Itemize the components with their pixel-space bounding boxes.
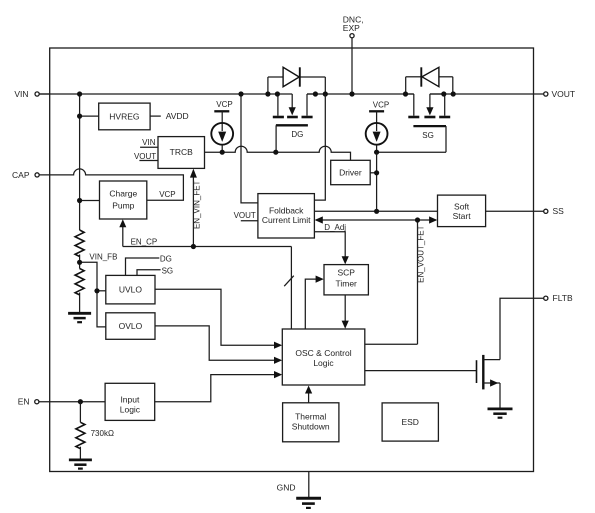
node junction SG FET left / diode [403,91,408,96]
pin DNC,EXP [343,15,364,38]
node junction DG gate / TRCB wire [273,150,278,155]
pin SS [544,206,564,216]
resistor R1 VIN_FB upper [75,230,84,256]
svg-text:GND: GND [277,483,296,493]
wire Input Logic output to OSC [155,371,283,402]
node junction HVREG tap [77,114,82,119]
svg-text:VCP: VCP [373,101,389,110]
wire VOUT sense down to Foldback (x=325.3) [314,94,325,200]
svg-text:Logic: Logic [313,358,334,368]
ground symbol at GND pin [296,498,321,508]
svg-text:Logic: Logic [120,405,141,415]
node junction Driver output [374,170,379,175]
svg-text:Input: Input [120,395,140,405]
block Input Logic [105,383,155,420]
wire Foldback output to Soft Start and SS pin [314,210,543,212]
pin VIN [14,89,50,99]
block OVLO [106,313,155,340]
wire UVLO output to OSC [155,289,282,349]
svg-text:EXP: EXP [343,23,360,33]
svg-text:VCP: VCP [216,100,232,109]
svg-text:SG: SG [422,131,434,140]
pin EN [18,397,39,407]
block HVREG U1 [99,103,150,130]
node junction charge pump tap [77,198,82,203]
value label 730k ohm [91,429,114,438]
net label D_Adj [324,223,346,232]
node junction VCP2 branch / foldback wire [374,209,379,214]
net label VCP (charge pump output) [159,190,175,199]
node junction EN_VOUT_FET [415,217,420,222]
block Foldback Current Limit [258,194,315,238]
svg-text:Charge: Charge [109,188,137,198]
transistor DG (back-to-back FET) [273,94,316,117]
svg-text:SG: SG [162,266,174,275]
svg-text:VIN: VIN [142,138,156,147]
wire Driver output [370,172,376,174]
wire VCP2 to SG gate [377,151,446,153]
pin CAP [12,170,39,180]
svg-text:CAP: CAP [12,170,30,180]
wire VIN vertical branch x=79.6 [79,94,81,312]
net label VOUT (TRCB input) [134,152,158,161]
svg-text:DG: DG [160,254,172,263]
wire FLTB drain to pin [500,298,544,359]
wire VCP2 node down to foldback output wire [376,152,378,211]
node junction VCP1 / gate wire [220,150,225,155]
block Soft Start [438,195,486,227]
wire TRCB output to DG gate and Driver (hops over two verticals) [205,146,351,160]
svg-text:Thermal: Thermal [295,411,326,421]
wire OSC output to EN_VOUT_FET [365,343,418,345]
block ESD [382,403,438,441]
wire SCP Timer output to OSC [342,295,349,329]
svg-text:HVREG: HVREG [109,111,139,121]
block OSC and Control Logic [282,329,365,385]
node junction DG diode right [323,91,328,96]
node junction DG FET right [313,91,318,96]
svg-text:Soft: Soft [454,201,470,211]
svg-text:OVLO: OVLO [119,321,143,331]
svg-text:Shutdown: Shutdown [292,421,330,431]
net label VOUT (Foldback input) [234,211,258,221]
wire EN_VIN_FET arrow into TRCB [190,169,197,247]
wire EN_VOUT_FET vertical from OSC [417,220,419,344]
svg-text:EN_VIN_FET: EN_VIN_FET [193,180,202,229]
transistor SG (back-to-back FET) [406,94,451,117]
wire EN_CP bus down to OSC with bus slash [284,247,294,330]
svg-text:EN: EN [18,397,30,407]
net label VIN (TRCB input) [140,138,158,147]
svg-text:VOUT: VOUT [134,152,156,161]
svg-text:730kΩ: 730kΩ [91,429,114,438]
current source VCP1 [211,100,233,152]
ground below R2 [68,313,91,322]
net label SG (UVLO stub) [137,266,173,275]
svg-text:ESD: ESD [401,417,418,427]
wire OSC output to FLTB FET gate [365,370,477,372]
node junction VIN rail / branch [77,91,82,96]
wire Thermal Shutdown to OSC arrow [305,386,312,403]
diode DG body diode [268,67,325,94]
resistor R3 730k [76,402,85,459]
svg-text:Driver: Driver [339,167,362,177]
wire SCP Timer left input from OSC [305,276,324,330]
svg-text:Start: Start [453,211,472,221]
net label EN_VIN_FET (rotated) [193,180,202,229]
svg-text:TRCB: TRCB [170,147,193,157]
net label AVDD [166,111,189,121]
svg-text:EN_CP: EN_CP [131,237,158,246]
svg-text:VIN: VIN [14,89,28,99]
wire D_Adj from Foldback to SCP Timer [314,232,348,265]
current source VCP2 [366,101,390,153]
block TRCB [158,137,205,169]
svg-text:VOUT: VOUT [552,89,576,99]
svg-text:UVLO: UVLO [119,285,143,295]
svg-text:SCP: SCP [337,267,355,277]
svg-text:FLTB: FLTB [553,293,573,303]
IC boundary [50,48,534,472]
svg-text:VCP: VCP [159,190,175,199]
block Charge Pump [100,181,147,219]
pin FLTB [544,293,573,303]
svg-text:DG: DG [291,130,303,139]
resistor R2 VIN_FB lower [75,269,84,295]
block Thermal Shutdown [283,403,339,442]
wire VIN sense down to Foldback (x=241) [241,94,258,203]
net label DG (UVLO stub) [126,254,172,275]
pin VOUT [534,89,576,99]
node junction UVLO input [94,288,99,293]
net label EN_VOUT_FET (rotated) [416,225,425,282]
node junction SG diode right [451,91,456,96]
wire EN_CP with arrow into Charge Pump [119,219,291,246]
node junction EN divider tap [78,399,83,404]
svg-text:Timer: Timer [335,278,357,288]
svg-text:Current Limit: Current Limit [262,215,311,225]
wire CAP to VCP node (hop over VIN branch) [39,169,183,200]
block SCP Timer [324,265,368,295]
wire Charge Pump input [80,200,100,202]
wire AVDD stub [150,115,161,117]
svg-text:Pump: Pump [112,200,134,210]
wire OVLO output to OSC [155,326,282,364]
svg-text:EN_VOUT_FET: EN_VOUT_FET [416,225,425,282]
net label EN_CP [131,237,158,246]
svg-text:VOUT: VOUT [234,211,256,220]
svg-text:AVDD: AVDD [166,111,189,121]
transistor Q1 FLTB pulldown [477,355,501,408]
svg-text:SS: SS [553,206,565,216]
net label VIN_FB [89,252,117,261]
wire VIN rail middle segment [307,93,414,95]
node junction VIN_FB tap [77,260,82,265]
svg-text:D_Adj: D_Adj [324,223,346,232]
wire VIN rail left segment [39,93,292,95]
svg-text:OSC & Control: OSC & Control [295,348,351,358]
ground below R3 [69,460,92,469]
wire VOUT rail segment [430,93,534,95]
gate SG with label [413,126,446,152]
node junction DG FET left [275,91,280,96]
pin GND [277,472,309,498]
node junction SG FET right [441,91,446,96]
wire EN_VOUT_FET double arrow (Foldback / Soft Start) [315,216,438,223]
node junction EN_VIN_FET / EN_CP [191,244,196,249]
svg-text:VIN_FB: VIN_FB [89,252,117,261]
wire VIN_FB to UVLO and OVLO [80,262,106,327]
node junction DNC rail [349,91,354,96]
wire DNC to VIN rail [351,38,353,94]
node junction DG diode left [265,91,270,96]
wire HVREG input [80,115,99,117]
block Driver [331,160,371,184]
svg-text:Foldback: Foldback [269,206,304,216]
gate DG with label [276,125,308,152]
diode SG body diode [406,67,453,94]
ground below Q1 [488,409,513,418]
node junction VCP2 / SG gate wire [374,150,379,155]
node junction rail x=241 [238,91,243,96]
wire EN input [39,401,105,403]
block UVLO [106,275,155,304]
